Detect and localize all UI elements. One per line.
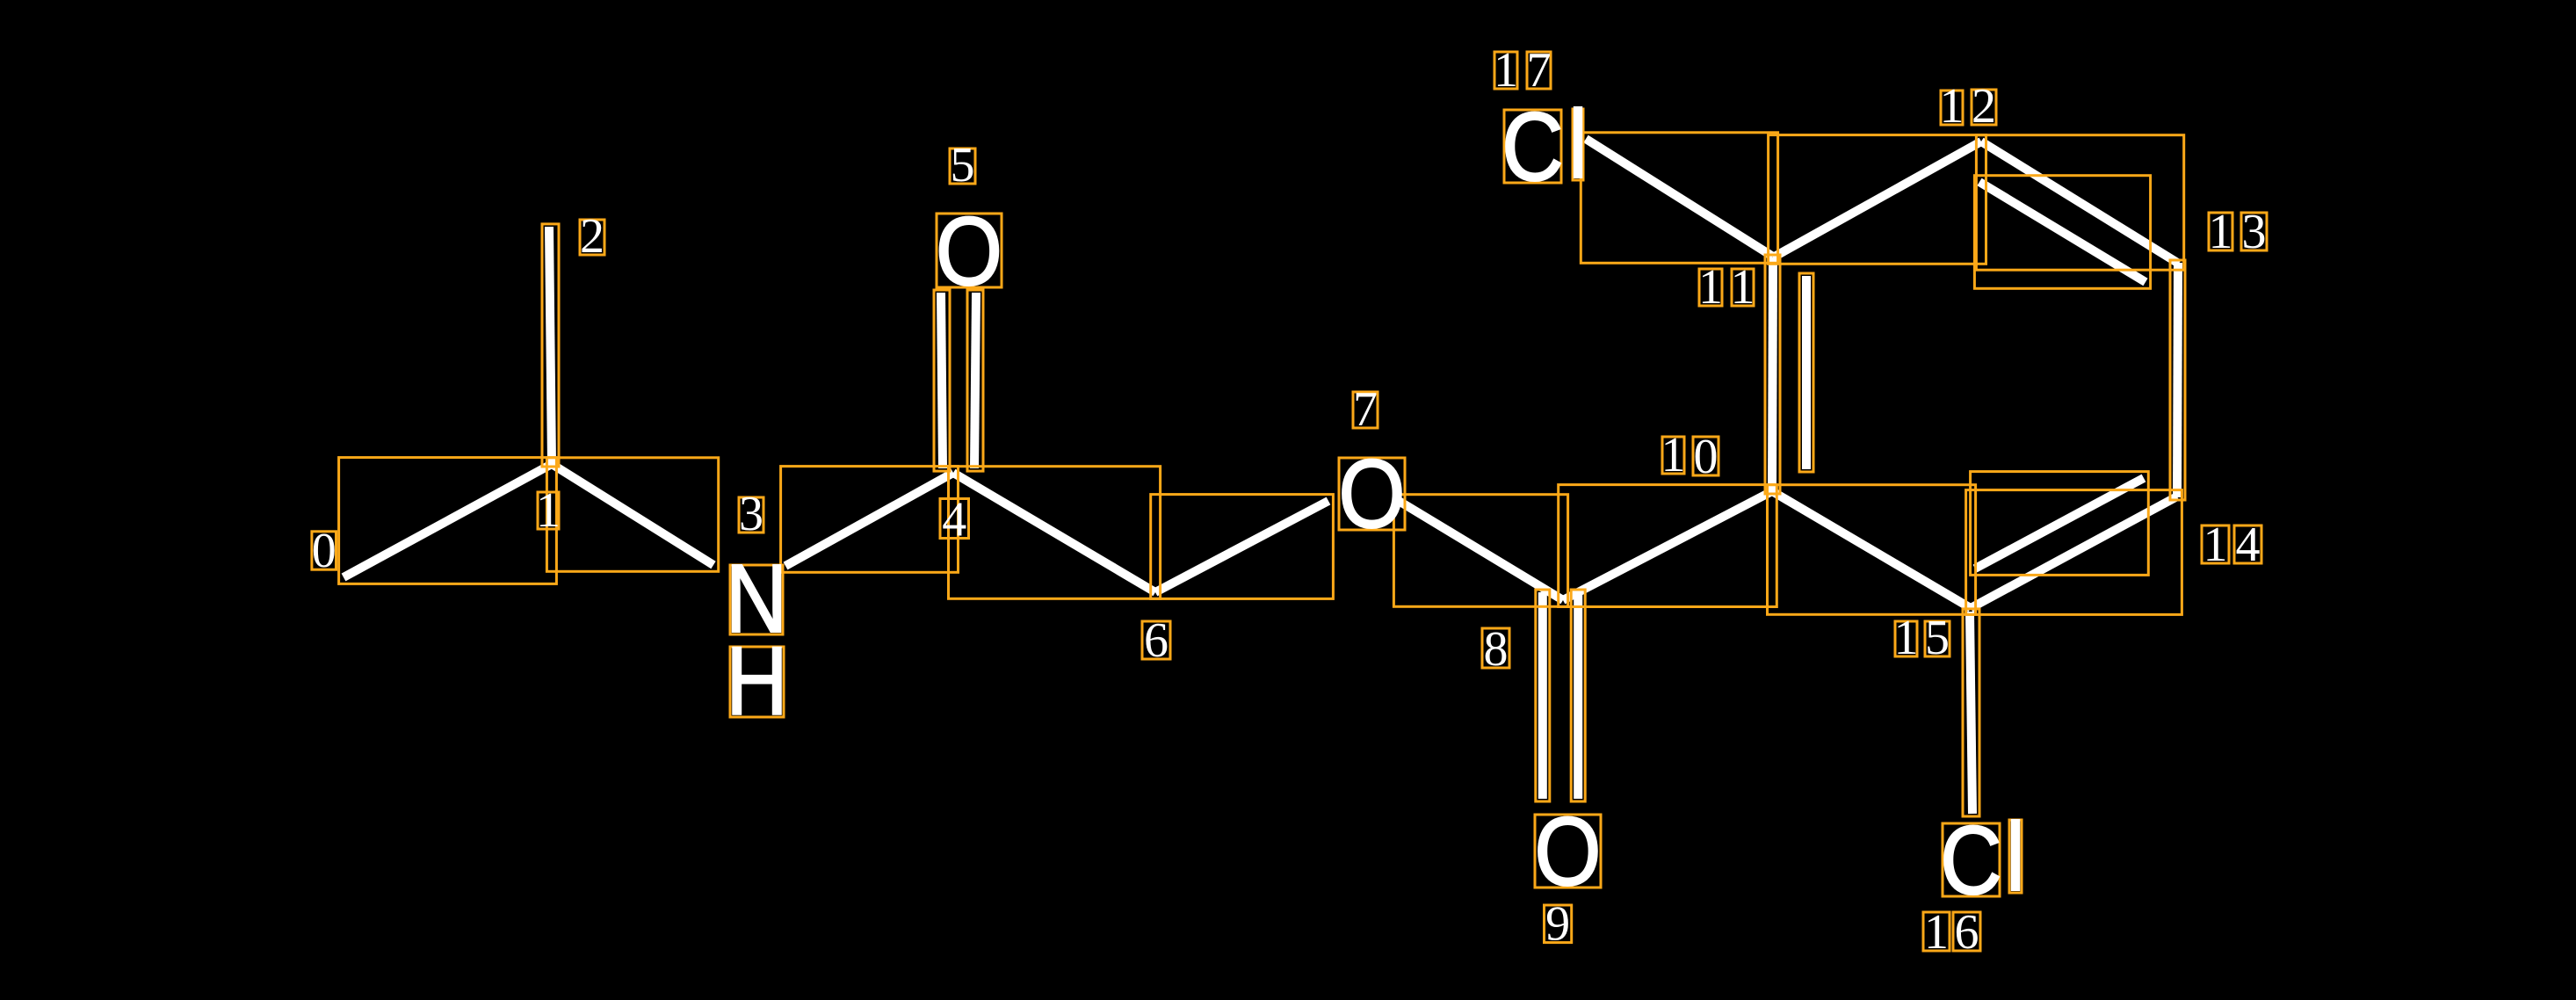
bond 17-11 box <box>1581 133 1777 263</box>
index 2 <box>580 209 604 264</box>
index 13 digit 0 box <box>2209 213 2232 250</box>
bond 6-7 box <box>1151 495 1334 599</box>
index 7 digit 0 box <box>1353 392 1378 428</box>
svg-text:1: 1 <box>1731 260 1755 315</box>
atom O9 glyph box <box>1535 815 1601 888</box>
svg-text:1: 1 <box>1940 79 1965 134</box>
bond 8-9b <box>1574 592 1582 799</box>
index 12 digit 1 box <box>1972 90 1996 125</box>
index 14 <box>2203 518 2261 572</box>
bond 12-13 <box>1981 141 2179 264</box>
bond 14-15 box <box>1966 490 2182 615</box>
bond 0-1 box <box>339 458 557 584</box>
index 7 <box>1353 382 1378 437</box>
index 6 <box>1144 613 1169 668</box>
svg-text:5: 5 <box>951 138 975 192</box>
svg-text:C: C <box>1501 94 1564 202</box>
index 14 digit 1 box <box>2234 525 2261 563</box>
bond 14-15 <box>1971 496 2177 608</box>
bond 15-16 <box>1970 612 1972 814</box>
bond 10-11 box <box>1765 255 1780 494</box>
svg-text:3: 3 <box>2242 205 2267 259</box>
svg-text:1: 1 <box>1924 905 1949 960</box>
index 17 digit 1 box <box>1527 52 1551 89</box>
atom Cl17 glyph C box <box>1504 110 1561 183</box>
svg-text:1: 1 <box>1894 611 1919 665</box>
index 6 digit 0 box <box>1142 621 1170 659</box>
index 13 <box>2209 205 2267 259</box>
index 16 digit 0 box <box>1923 912 1950 951</box>
atom N3 glyph H box <box>730 647 784 717</box>
bond 8-10 box <box>1559 485 1777 607</box>
index 9 digit 0 box <box>1545 905 1572 943</box>
svg-text:1: 1 <box>2209 205 2233 259</box>
bond 3-4 box <box>781 467 959 573</box>
index 10 <box>1661 428 1719 484</box>
svg-text:8: 8 <box>1484 622 1509 677</box>
index 1 digit 0 box <box>538 492 559 529</box>
svg-text:7: 7 <box>1353 382 1378 437</box>
atom Cl16 glyph C box <box>1943 823 2000 896</box>
svg-text:C: C <box>1940 808 2002 916</box>
atom Cl17 glyph l box <box>1573 109 1583 180</box>
bond 7-8 <box>1399 501 1563 600</box>
bond 15-10 <box>1772 491 1971 608</box>
bond 11-12 box <box>1769 135 1986 264</box>
bond 1-2 <box>549 227 552 464</box>
bond 12-13 inner box <box>1974 176 2150 289</box>
index 15 digit 0 box <box>1895 621 1917 656</box>
bond 1-3 box <box>546 458 718 572</box>
svg-text:4: 4 <box>942 493 966 547</box>
bond 17-11 <box>1586 139 1773 257</box>
svg-text:H: H <box>726 628 788 736</box>
bond 8-9a <box>1538 592 1547 799</box>
index 11 digit 1 box <box>1732 269 1754 306</box>
index 4 digit 0 box <box>940 499 969 539</box>
bond 8-9b box <box>1571 590 1585 801</box>
index 8 digit 0 box <box>1482 628 1509 668</box>
index 0 digit 0 box <box>312 532 336 569</box>
bond 4-6 box <box>949 467 1161 599</box>
index 1 <box>536 483 561 538</box>
svg-text:1: 1 <box>1661 428 1686 482</box>
bond 10-11 inner box <box>1799 273 1813 472</box>
index 4 <box>942 493 966 547</box>
bond 13-14 box <box>2170 260 2185 500</box>
bond 14-15 inner <box>1975 478 2144 569</box>
bond 13-14 <box>2177 263 2178 497</box>
svg-text:3: 3 <box>739 487 763 541</box>
index 5 digit 0 box <box>950 149 975 184</box>
index 12 <box>1940 79 1997 134</box>
svg-text:7: 7 <box>1527 43 1552 98</box>
bond 8-9a box <box>1536 590 1550 801</box>
svg-text:5: 5 <box>1925 611 1950 665</box>
index 16 <box>1924 905 1979 960</box>
svg-text:l: l <box>1568 91 1588 199</box>
index 16 digit 1 box <box>1953 912 1980 951</box>
index 10 digit 0 box <box>1662 437 1684 474</box>
svg-text:1: 1 <box>1494 43 1518 98</box>
svg-text:O: O <box>1534 799 1601 907</box>
index 8 <box>1484 622 1509 677</box>
bond 15-10 box <box>1768 485 1976 615</box>
bond 12-13 box <box>1976 135 2183 271</box>
bond 4-5b box <box>967 290 983 471</box>
bond 4-5b <box>974 293 976 468</box>
index 17 <box>1494 43 1552 98</box>
bond 11-12 <box>1773 141 1981 257</box>
bond 1-3 <box>552 464 713 565</box>
index 13 digit 1 box <box>2241 213 2267 250</box>
index 11 <box>1698 260 1755 315</box>
index 3 digit 0 box <box>739 497 763 533</box>
atom N3 glyph N box <box>730 565 783 634</box>
index 9 <box>1545 897 1570 952</box>
svg-text:l: l <box>2006 804 2025 912</box>
svg-text:6: 6 <box>1955 905 1979 960</box>
bond 4-6 <box>953 473 1155 592</box>
bond 10-11 inner <box>1802 276 1811 469</box>
svg-text:0: 0 <box>312 524 336 578</box>
index 15 digit 1 box <box>1925 621 1950 656</box>
svg-text:O: O <box>936 199 1002 307</box>
index 17 digit 0 box <box>1494 52 1517 89</box>
atom O7 glyph box <box>1339 458 1405 530</box>
atom Cl16 glyph l box <box>2009 820 2022 893</box>
bond 15-16 box <box>1963 609 1979 816</box>
bond 4-5a box <box>934 290 950 471</box>
svg-text:2: 2 <box>1972 79 1996 134</box>
svg-text:4: 4 <box>2236 518 2261 572</box>
index 12 digit 0 box <box>1941 91 1963 125</box>
atom O5 glyph box <box>937 214 1002 287</box>
svg-text:6: 6 <box>1144 613 1169 668</box>
svg-text:1: 1 <box>2203 518 2228 572</box>
bond 3-4 <box>785 473 953 566</box>
svg-text:1: 1 <box>536 483 561 538</box>
index 3 <box>739 487 763 541</box>
bond 7-8 box <box>1393 495 1567 607</box>
bond 4-5a <box>941 293 943 468</box>
svg-text:2: 2 <box>580 209 604 264</box>
bond 12-13 inner <box>1979 182 2145 282</box>
index 5 <box>951 138 975 192</box>
svg-text:9: 9 <box>1545 897 1570 952</box>
bond 8-10 <box>1563 491 1772 600</box>
bond 10-11 <box>1772 257 1773 491</box>
svg-text:O: O <box>1338 441 1405 549</box>
index 14 digit 0 box <box>2202 525 2229 563</box>
svg-text:1: 1 <box>1698 260 1723 315</box>
svg-text:0: 0 <box>1694 430 1719 484</box>
index 0 <box>312 524 336 578</box>
bond 0-1 <box>344 464 552 577</box>
bond 6-7 <box>1155 501 1328 592</box>
bond 1-2 box <box>542 224 559 467</box>
index 10 digit 1 box <box>1693 437 1719 475</box>
index 2 digit 0 box <box>580 220 604 255</box>
index 11 digit 0 box <box>1699 269 1722 306</box>
index 15 <box>1894 611 1950 665</box>
bond 14-15 inner box <box>1971 472 2149 576</box>
